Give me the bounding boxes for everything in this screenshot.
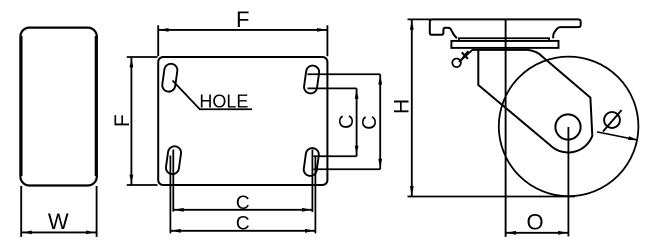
wheel right tread edge	[95, 36, 98, 176]
H dimension line	[411, 20, 413, 196]
W arrow left	[22, 231, 32, 235]
inner C dimension line (bottom)	[173, 209, 312, 211]
F top dimension line	[158, 29, 327, 31]
slot top-right	[303, 65, 320, 95]
wheel tread outline	[20, 28, 96, 186]
F left extension line bottom	[127, 184, 158, 186]
slot top-left	[161, 63, 178, 93]
extension line from bottom slot to inner C	[314, 155, 357, 157]
svg-text:W: W	[48, 209, 69, 234]
svg-text:C: C	[359, 115, 381, 129]
extension line inner-right	[311, 150, 313, 213]
W extension line right	[96, 186, 98, 237]
inner C dimension line (right)	[356, 88, 358, 156]
H arrow bottom	[410, 186, 414, 196]
grease fitting hex cross 1	[461, 51, 468, 60]
grease fitting hex cross 2	[462, 52, 468, 58]
grease fitting stem	[459, 50, 473, 62]
W dimension line	[22, 231, 96, 233]
label C outer right (rotated)	[359, 115, 381, 129]
svg-text:F: F	[111, 114, 134, 127]
diameter leader line	[597, 132, 637, 140]
O arrow left	[506, 231, 516, 235]
H extension line bottom (ground line)	[408, 196, 576, 198]
svg-text:H: H	[390, 99, 413, 114]
svg-text:HOLE: HOLE	[199, 92, 248, 112]
F top arrow right	[317, 28, 327, 32]
bearing raceway main band	[451, 41, 558, 48]
svg-text:F: F	[236, 7, 249, 32]
wheel left tread edge	[20, 36, 23, 176]
extension line from top slot to inner C	[308, 87, 357, 89]
swivel fork	[472, 50, 592, 153]
swivel axis centerline	[505, 19, 507, 237]
slot bottom-left	[165, 145, 182, 175]
bearing raceway upper band	[459, 38, 549, 41]
inner C arrows	[174, 208, 184, 212]
diameter symbol circle	[604, 112, 620, 128]
F top extension line right	[326, 25, 328, 56]
svg-text:C: C	[336, 114, 358, 128]
F left arrow top	[130, 57, 134, 67]
top plate profile	[430, 19, 581, 38]
extension line outer-right	[314, 156, 316, 234]
grease fitting ball	[452, 59, 461, 68]
right C dims: extension line from top slot to outer C	[308, 73, 381, 75]
outer C dimension line (right)	[379, 74, 381, 169]
F top arrow left	[159, 28, 169, 32]
extension line inner-left	[172, 150, 174, 212]
O dimension line	[506, 232, 569, 234]
F left arrow bottom	[130, 175, 134, 185]
extension line from bottom slot to outer C	[314, 168, 381, 170]
inner C arrows	[355, 89, 359, 99]
wheel	[499, 57, 639, 197]
label H (rotated)	[390, 99, 413, 114]
F left dimension: extension line top	[127, 56, 158, 58]
wheel axis centerline	[567, 127, 569, 236]
slot bottom-right	[303, 147, 320, 177]
W arrow right	[86, 231, 96, 235]
O arrow right	[558, 231, 568, 235]
F top dimension: extension line left	[157, 25, 159, 56]
svg-text:C: C	[236, 193, 250, 214]
diameter symbol slash	[603, 110, 622, 131]
mounting plate outline	[158, 57, 327, 185]
hub	[555, 114, 580, 139]
H arrow top	[410, 20, 414, 30]
label C inner right (rotated)	[336, 114, 358, 128]
label F left (rotated)	[111, 114, 134, 127]
H extension line top	[408, 18, 431, 20]
outer C dimension line (bottom)	[170, 230, 315, 232]
outer C arrows	[378, 75, 382, 85]
diameter leader arrow	[628, 136, 638, 140]
bottom C dims: extension line outer-left	[169, 156, 171, 234]
W extension line left	[20, 186, 22, 237]
F left dimension line	[130, 57, 132, 184]
HOLE leader line	[173, 81, 253, 110]
svg-text:O: O	[526, 209, 543, 234]
svg-text:C: C	[236, 214, 250, 235]
outer C arrows	[171, 229, 181, 233]
